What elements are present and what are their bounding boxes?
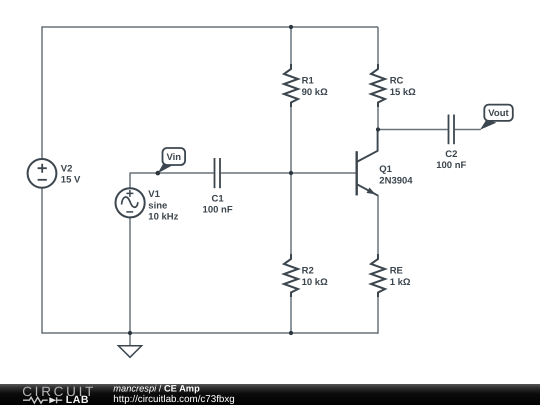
svg-text:LAB: LAB	[66, 394, 89, 405]
svg-text:C1: C1	[212, 193, 225, 204]
svg-text:1 kΩ: 1 kΩ	[390, 277, 411, 288]
svg-text:mancrespi / CE Amp: mancrespi / CE Amp	[113, 383, 200, 393]
svg-text:V2: V2	[61, 163, 73, 174]
svg-text:V1: V1	[148, 189, 160, 200]
svg-text:R1: R1	[302, 76, 315, 87]
svg-text:C2: C2	[445, 149, 457, 160]
svg-text:100 nF: 100 nF	[203, 204, 233, 215]
svg-text:100 nF: 100 nF	[436, 160, 466, 171]
svg-text:10 kHz: 10 kHz	[148, 211, 178, 222]
svg-text:90 kΩ: 90 kΩ	[302, 87, 328, 98]
svg-text:http://circuitlab.com/c73fbxg: http://circuitlab.com/c73fbxg	[113, 394, 234, 405]
svg-text:15 kΩ: 15 kΩ	[390, 87, 416, 98]
svg-text:10 kΩ: 10 kΩ	[302, 277, 328, 288]
svg-text:RC: RC	[390, 76, 404, 87]
svg-text:RE: RE	[390, 266, 403, 277]
svg-text:2N3904: 2N3904	[379, 175, 413, 186]
svg-text:Vin: Vin	[166, 152, 181, 163]
svg-text:Vout: Vout	[488, 108, 509, 119]
svg-text:R2: R2	[302, 266, 314, 277]
svg-text:sine: sine	[148, 200, 167, 211]
svg-text:15 V: 15 V	[61, 174, 81, 185]
svg-text:Q1: Q1	[379, 164, 392, 175]
